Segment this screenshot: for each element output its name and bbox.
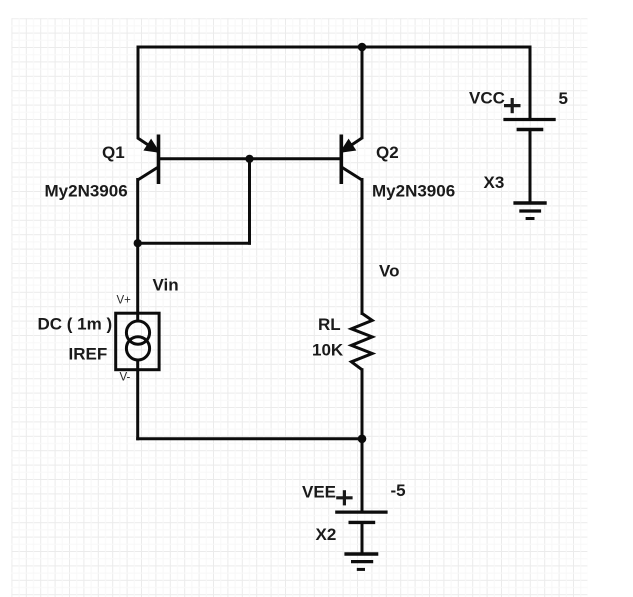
current source IREF box <box>116 313 159 370</box>
battery X2 (VEE) <box>335 512 387 553</box>
svg-text:V+: V+ <box>117 295 132 307</box>
wire Q1 collector down <box>136 180 139 321</box>
wire RL to bottom rail <box>361 370 364 439</box>
resistor RL <box>351 313 372 369</box>
wire feedback horizontal <box>138 242 250 245</box>
svg-text:X2: X2 <box>316 525 337 544</box>
plus sign VEE <box>336 490 352 505</box>
transistor Q1 <box>138 135 159 185</box>
ground X3 <box>513 203 546 219</box>
svg-text:RL: RL <box>318 315 341 334</box>
svg-text:My2N3906: My2N3906 <box>45 182 128 201</box>
svg-text:DC ( 1m ): DC ( 1m ) <box>38 315 113 334</box>
wire feedback vertical <box>248 159 251 243</box>
node junction collector Q1 <box>134 239 142 247</box>
node junction bottom rail <box>358 435 367 444</box>
transistor Q2 <box>341 135 362 185</box>
wire Q2 emitter drop <box>361 47 364 138</box>
wire IREF to bottom rail <box>136 361 139 439</box>
wire top rail <box>138 46 530 49</box>
svg-text:Vo: Vo <box>379 262 399 281</box>
svg-text:Vin: Vin <box>153 275 179 294</box>
svg-text:Q1: Q1 <box>102 143 125 162</box>
svg-text:VEE: VEE <box>302 483 336 502</box>
wire bottom rail <box>138 437 362 440</box>
wire Q1 emitter drop <box>137 47 140 138</box>
svg-text:VCC: VCC <box>469 89 505 108</box>
ground X2 <box>344 554 378 569</box>
current source IREF circles <box>126 321 149 360</box>
svg-text:V-: V- <box>120 372 131 384</box>
node junction base <box>245 155 253 163</box>
svg-text:10K: 10K <box>312 341 344 360</box>
battery X3 (VCC) <box>503 120 555 203</box>
svg-text:-5: -5 <box>391 481 406 500</box>
svg-text:My2N3906: My2N3906 <box>372 182 455 201</box>
plus sign VCC <box>504 98 521 113</box>
wire VCC drop <box>529 47 532 120</box>
svg-text:IREF: IREF <box>69 345 108 364</box>
wire base Q1-Q2 <box>159 157 342 160</box>
svg-text:5: 5 <box>559 89 568 108</box>
svg-text:X3: X3 <box>484 173 505 192</box>
wire VEE drop <box>361 439 364 512</box>
svg-text:Q2: Q2 <box>376 143 399 162</box>
node junction top rail <box>358 43 367 52</box>
wire Q2 collector down <box>361 180 364 314</box>
